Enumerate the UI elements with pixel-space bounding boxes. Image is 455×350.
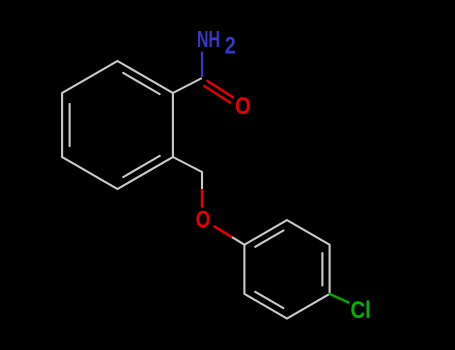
svg-text:O: O [235, 93, 251, 120]
svg-text:NH: NH [197, 26, 220, 52]
svg-text:O: O [196, 207, 211, 234]
svg-text:2: 2 [225, 33, 236, 60]
svg-text:Cl: Cl [351, 297, 371, 324]
